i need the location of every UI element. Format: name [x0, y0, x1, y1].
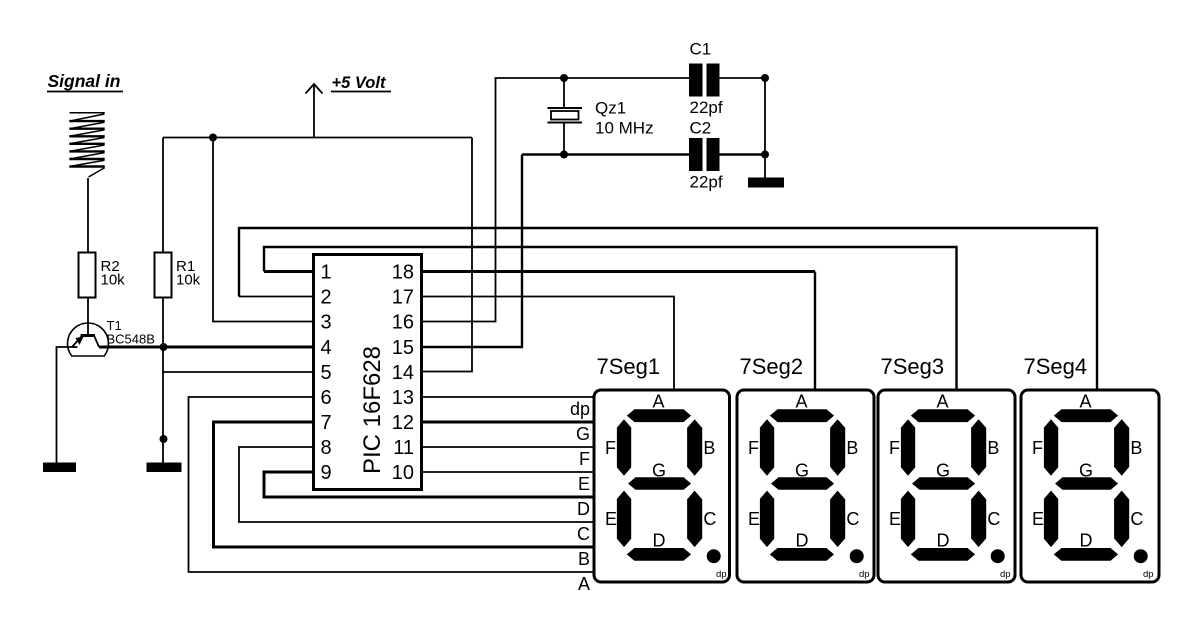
- svg-text:A: A: [795, 392, 807, 412]
- svg-text:F: F: [748, 438, 759, 458]
- svg-text:A: A: [936, 392, 948, 412]
- svg-text:C: C: [703, 509, 716, 529]
- svg-text:D: D: [796, 531, 809, 551]
- svg-text:F: F: [579, 449, 590, 469]
- svg-text:12: 12: [392, 412, 414, 434]
- svg-text:G: G: [795, 460, 809, 480]
- svg-text:17: 17: [392, 287, 414, 309]
- svg-text:Signal in: Signal in: [48, 71, 121, 91]
- svg-text:B: B: [987, 438, 999, 458]
- svg-text:E: E: [578, 474, 590, 494]
- svg-text:22pf: 22pf: [690, 173, 723, 192]
- svg-text:7: 7: [321, 412, 332, 434]
- svg-text:B: B: [1130, 438, 1142, 458]
- svg-text:3: 3: [321, 312, 332, 334]
- svg-text:A: A: [652, 392, 664, 412]
- svg-text:D: D: [1080, 531, 1093, 551]
- svg-text:7Seg3: 7Seg3: [881, 354, 945, 379]
- svg-text:D: D: [653, 531, 666, 551]
- svg-text:1: 1: [321, 262, 332, 284]
- svg-text:C: C: [987, 509, 1000, 529]
- svg-text:E: E: [1032, 509, 1044, 529]
- svg-text:5: 5: [321, 362, 332, 384]
- svg-text:4: 4: [321, 337, 332, 359]
- svg-text:dp: dp: [859, 569, 870, 580]
- svg-text:7Seg2: 7Seg2: [740, 354, 804, 379]
- svg-text:C2: C2: [690, 119, 712, 138]
- svg-text:Qz1: Qz1: [595, 99, 626, 118]
- svg-text:11: 11: [393, 437, 414, 459]
- svg-text:10k: 10k: [101, 272, 126, 289]
- svg-text:6: 6: [321, 387, 332, 409]
- svg-text:BC548B: BC548B: [107, 332, 155, 347]
- svg-text:D: D: [577, 499, 590, 519]
- svg-text:E: E: [605, 509, 617, 529]
- svg-text:E: E: [748, 509, 760, 529]
- svg-text:13: 13: [392, 387, 414, 409]
- svg-text:G: G: [576, 424, 590, 444]
- svg-text:14: 14: [392, 362, 414, 384]
- svg-text:A: A: [578, 574, 590, 594]
- svg-text:8: 8: [321, 437, 332, 459]
- svg-text:G: G: [1079, 460, 1093, 480]
- svg-text:B: B: [578, 549, 590, 569]
- svg-text:G: G: [936, 460, 950, 480]
- svg-text:F: F: [605, 438, 616, 458]
- svg-text:C: C: [846, 509, 859, 529]
- svg-text:B: B: [846, 438, 858, 458]
- svg-text:10: 10: [392, 462, 414, 484]
- svg-text:B: B: [703, 438, 715, 458]
- svg-text:G: G: [652, 460, 666, 480]
- svg-text:16: 16: [392, 312, 414, 334]
- svg-text:C: C: [577, 524, 590, 544]
- svg-text:A: A: [1079, 392, 1091, 412]
- svg-text:10k: 10k: [176, 272, 201, 289]
- svg-text:10 MHz: 10 MHz: [595, 119, 654, 138]
- svg-text:PIC 16F628: PIC 16F628: [359, 346, 386, 474]
- svg-text:+5 Volt: +5 Volt: [332, 74, 387, 92]
- svg-text:C1: C1: [690, 40, 712, 59]
- svg-text:2: 2: [321, 287, 332, 309]
- svg-text:18: 18: [392, 262, 414, 284]
- svg-text:E: E: [889, 509, 901, 529]
- svg-text:F: F: [889, 438, 900, 458]
- svg-text:9: 9: [321, 462, 332, 484]
- svg-text:dp: dp: [1143, 569, 1154, 580]
- svg-text:7Seg4: 7Seg4: [1024, 354, 1088, 379]
- svg-text:dp: dp: [570, 399, 590, 419]
- svg-text:C: C: [1130, 509, 1143, 529]
- svg-text:22pf: 22pf: [690, 98, 723, 117]
- svg-text:D: D: [937, 531, 950, 551]
- svg-text:7Seg1: 7Seg1: [597, 354, 661, 379]
- svg-text:F: F: [1032, 438, 1043, 458]
- svg-text:dp: dp: [1000, 569, 1011, 580]
- svg-text:dp: dp: [716, 569, 727, 580]
- svg-text:15: 15: [392, 337, 414, 359]
